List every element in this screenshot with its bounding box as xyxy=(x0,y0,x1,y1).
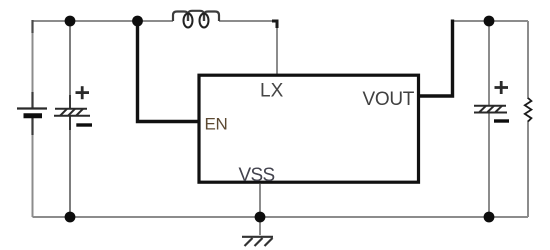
svg-text:VOUT: VOUT xyxy=(363,89,415,110)
wire VOUT (thick) xyxy=(418,20,453,97)
wire right rail lower xyxy=(527,121,529,218)
svg-text:LX: LX xyxy=(260,81,284,102)
capacitor C2 hatched plate xyxy=(474,106,507,113)
battery B1 positive plate xyxy=(17,107,47,109)
svg-text:VSS: VSS xyxy=(239,165,275,186)
wire inductor to LX corner xyxy=(219,20,277,22)
wire input cap branch upper xyxy=(69,21,71,107)
IC U1 body xyxy=(199,75,419,182)
capacitor C1 bottom lead xyxy=(69,116,71,130)
capacitor C2 minus sign xyxy=(494,119,509,122)
capacitor C1 hatched plate xyxy=(54,109,90,116)
wire input cap branch lower xyxy=(69,116,71,217)
node VOUT top junction xyxy=(484,16,495,27)
wire top rail left (battery to inductor) xyxy=(33,20,174,22)
inductor L1 xyxy=(173,11,219,21)
node VSS bottom junction xyxy=(255,212,266,223)
wire LX corner elbow xyxy=(272,21,277,28)
wire EN (thick) xyxy=(138,20,200,122)
capacitor C2 plus sign xyxy=(495,81,509,94)
resistor R1 (load) xyxy=(525,98,532,122)
battery bottom lead xyxy=(31,117,33,135)
wire top rail right xyxy=(453,20,529,22)
wire output cap branch lower xyxy=(488,113,490,217)
battery B1 negative plate xyxy=(24,113,43,118)
capacitor C1 minus sign xyxy=(76,123,92,126)
wire VSS drop to ground xyxy=(259,184,261,235)
wire left rail vertical xyxy=(32,20,34,108)
wire output cap branch upper xyxy=(488,21,490,105)
inductor loop 1 xyxy=(184,14,193,28)
node bottom left junction xyxy=(65,212,76,223)
wire battery negative to bottom rail xyxy=(32,117,34,217)
ground symbol xyxy=(242,237,273,246)
capacitor C1 top lead xyxy=(69,95,71,108)
inductor loop 2 xyxy=(200,14,209,28)
battery top lead xyxy=(31,92,33,108)
capacitor C1 plus sign xyxy=(76,86,90,99)
wire right rail upper xyxy=(527,21,529,99)
wire stub below top-left corner xyxy=(31,20,33,33)
node battery/cap top junction xyxy=(65,16,76,27)
svg-text:EN: EN xyxy=(205,115,228,134)
node bottom right junction xyxy=(484,212,495,223)
node EN top junction xyxy=(132,16,143,27)
wire LX riser xyxy=(276,24,278,74)
wire bottom rail xyxy=(33,216,529,218)
